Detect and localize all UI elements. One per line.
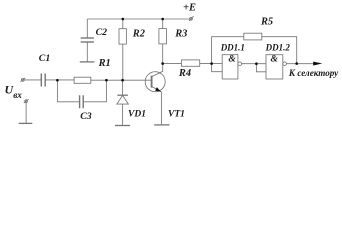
- svg-text:+E: +E: [183, 2, 196, 13]
- svg-text:&: &: [271, 55, 279, 65]
- svg-text:вх: вх: [13, 90, 22, 100]
- svg-text:VD1: VD1: [128, 110, 146, 120]
- svg-text:C3: C3: [80, 111, 92, 122]
- svg-text:DD1.2: DD1.2: [265, 43, 291, 53]
- svg-text:DD1.1: DD1.1: [220, 43, 245, 53]
- svg-text:&: &: [228, 55, 236, 65]
- svg-text:R5: R5: [260, 17, 273, 28]
- svg-text:К селектору: К селектору: [288, 68, 339, 78]
- svg-text:R2: R2: [132, 28, 145, 39]
- svg-text:C2: C2: [96, 27, 108, 38]
- svg-text:R3: R3: [174, 29, 187, 40]
- svg-text:R1: R1: [98, 58, 111, 69]
- svg-text:R4: R4: [178, 68, 191, 79]
- svg-text:VT1: VT1: [168, 109, 185, 119]
- svg-text:C1: C1: [39, 53, 50, 64]
